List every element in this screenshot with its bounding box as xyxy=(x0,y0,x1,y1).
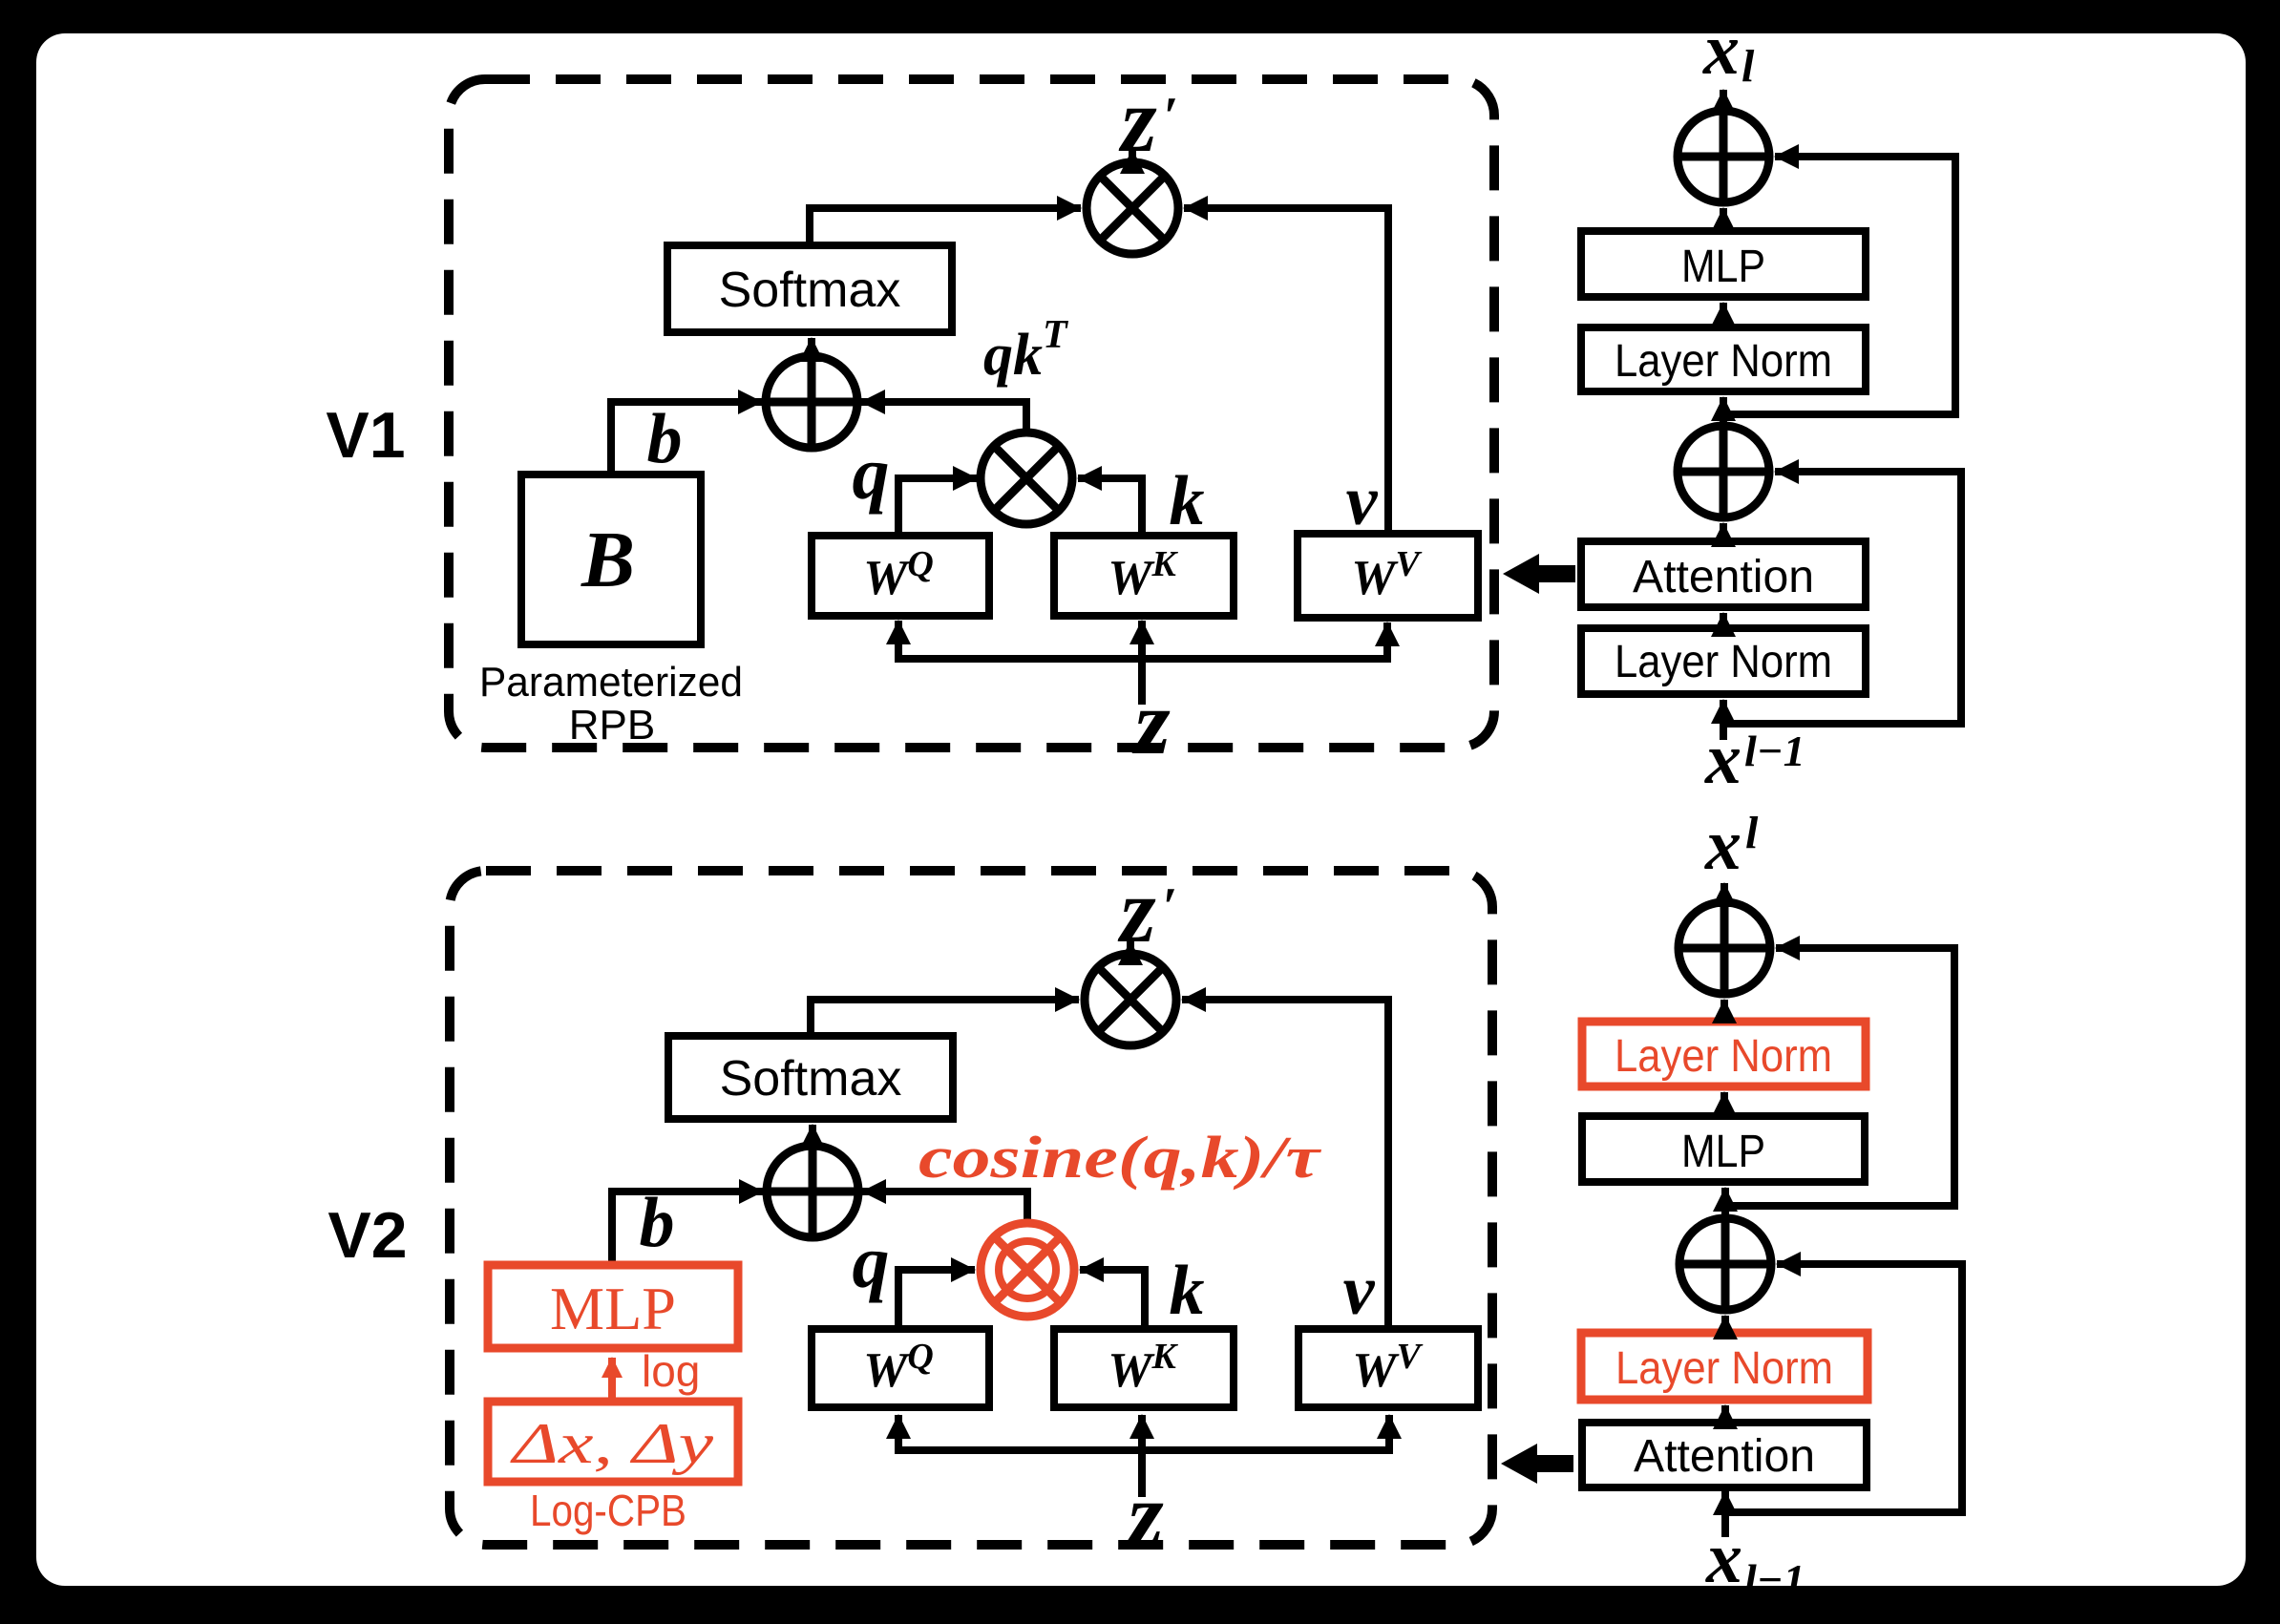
box WV xyxy=(1298,534,1478,618)
red multiply node (cosine) xyxy=(981,1223,1074,1317)
box Layer Norm (top stack upper) xyxy=(1581,327,1866,391)
add node V2 (b + cosine) xyxy=(767,1146,858,1237)
svg-text:v: v xyxy=(1343,1252,1376,1330)
svg-text:Layer Norm: Layer Norm xyxy=(1615,637,1832,687)
wire add2 up to MLP (V2 stack) xyxy=(1721,1188,1729,1218)
wire k from WK to red multiply xyxy=(1080,1270,1145,1329)
box Attention (V2 stack) xyxy=(1582,1423,1867,1487)
wire z branch to WV xyxy=(1383,622,1391,663)
multiply node V2 (softmax x v) xyxy=(1085,954,1176,1045)
box dx dy red xyxy=(488,1402,738,1482)
wire v riser from WV to multiply (V2) xyxy=(1182,1000,1388,1329)
wire add2 up to LayerNorm xyxy=(1720,397,1727,426)
svg-text:x: x xyxy=(1702,10,1740,90)
wire Softmax top to multiply (V2) xyxy=(811,1000,1079,1036)
svg-text:k: k xyxy=(1170,1252,1205,1330)
add node top (MLP residual) xyxy=(1678,111,1769,202)
V1 dashed container box xyxy=(449,79,1494,748)
node z-prime (V2 output) xyxy=(1117,859,1177,961)
svg-text:Parameterized: Parameterized xyxy=(479,659,743,706)
arrow add node to Softmax xyxy=(808,338,815,356)
Softmax box (V2) xyxy=(668,1036,953,1119)
box Layer Norm red (lower, V2 stack) xyxy=(1581,1333,1868,1400)
svg-text:log: log xyxy=(642,1346,700,1396)
wire v riser from WV to multiply node xyxy=(1184,208,1388,534)
wire q from WQ to red multiply xyxy=(898,1270,975,1329)
svg-text:RPB: RPB xyxy=(569,702,655,749)
svg-text:cosine(q,k)/τ: cosine(q,k)/τ xyxy=(918,1126,1322,1191)
label x_l-1 (subscript, V2 stack) xyxy=(1705,1518,1805,1604)
Softmax box (V1) xyxy=(667,245,952,332)
add node top (V2 stack) xyxy=(1678,902,1770,994)
wire k from WK to multiply xyxy=(1078,478,1142,536)
wire z branch to WV (V2) xyxy=(1385,1415,1393,1454)
svg-text:x: x xyxy=(1705,1518,1742,1598)
svg-text:Δx, Δy: Δx, Δy xyxy=(510,1412,713,1475)
arrow add to x^l (V2 stack) xyxy=(1721,883,1728,902)
wire z branch to WQ xyxy=(895,621,902,663)
box WK xyxy=(1054,536,1234,616)
label x_l output top xyxy=(1702,10,1755,92)
svg-text:MLP: MLP xyxy=(1681,242,1765,292)
svg-text:l−1: l−1 xyxy=(1744,1555,1805,1604)
svg-text:Layer Norm: Layer Norm xyxy=(1615,1343,1833,1394)
arrow add node to Softmax (V2) xyxy=(809,1125,816,1146)
arrow MLP to add1 xyxy=(1720,208,1727,231)
svg-text:l: l xyxy=(1745,808,1759,858)
svg-text:x: x xyxy=(1704,805,1742,885)
wire z up to WK (V2) xyxy=(1138,1415,1146,1497)
box MLP (top stack) xyxy=(1581,231,1866,297)
wire z up to WK xyxy=(1138,621,1146,705)
wire z branch to WQ (V2) xyxy=(895,1415,902,1454)
box MLP red (Log-CPB) xyxy=(488,1265,738,1348)
box Layer Norm red (upper, V2 stack) xyxy=(1582,1022,1866,1086)
box MLP (V2 stack) xyxy=(1582,1116,1865,1182)
wire z horizontal distribution xyxy=(898,655,1387,663)
box Layer Norm (top stack lower) xyxy=(1581,628,1866,694)
wire q from WQ to multiply xyxy=(898,478,977,536)
arrow add1 to x_l xyxy=(1720,90,1727,111)
svg-text:MLP: MLP xyxy=(1681,1127,1765,1177)
add node mid (V2 stack) xyxy=(1679,1218,1771,1310)
svg-text:Attention: Attention xyxy=(1634,1431,1815,1482)
arrow MLP to LayerNorm-red (V2 stack) xyxy=(1721,1092,1728,1116)
V2 dashed container box xyxy=(450,871,1492,1545)
svg-text:z: z xyxy=(1118,69,1156,171)
svg-text:Softmax: Softmax xyxy=(719,263,901,318)
wire z horizontal distribution (V2) xyxy=(898,1446,1389,1454)
arrow mult1 to z-prime xyxy=(1129,150,1136,166)
svg-text:k: k xyxy=(1170,462,1205,540)
thick arrow from Attention into V1 box xyxy=(1503,554,1575,594)
svg-text:l: l xyxy=(1742,41,1755,92)
svg-text:q: q xyxy=(853,432,890,515)
box WQ xyxy=(812,536,989,616)
wire Softmax top to multiply node xyxy=(810,208,1081,245)
add node mid (attention residual) xyxy=(1678,426,1769,517)
arrow LayerNorm-red to add (V2 stack) xyxy=(1721,1000,1728,1022)
arrow LayerNorm2 to Attention xyxy=(1720,613,1727,628)
wire B to add node (b) xyxy=(611,402,762,475)
wire MLP(red) to add node (b) V2 xyxy=(612,1192,763,1266)
svg-text:Layer Norm: Layer Norm xyxy=(1615,336,1832,387)
label x_l-1 (superscript) xyxy=(1704,719,1805,799)
svg-text:MLP: MLP xyxy=(550,1275,676,1342)
arrow LayerNorm-red2 to add2 (V2 stack) xyxy=(1721,1316,1729,1333)
skip wire around attention (V2 stack) xyxy=(1725,1264,1962,1512)
multiply node (softmax x v) xyxy=(1087,162,1178,254)
red arrow dxdy to MLP xyxy=(608,1358,616,1400)
svg-text:x: x xyxy=(1704,719,1742,799)
box B (parameterized bias) xyxy=(521,475,701,644)
svg-text:′: ′ xyxy=(1162,877,1177,937)
thick arrow from Attention into V2 box xyxy=(1501,1444,1573,1484)
svg-text:b: b xyxy=(647,400,683,478)
arrow Attention to LayerNorm-red2 (V2 stack) xyxy=(1721,1405,1729,1423)
skip wire around MLP (V2 stack) xyxy=(1724,948,1954,1206)
skip wire around attention block xyxy=(1723,472,1961,724)
svg-text:Softmax: Softmax xyxy=(720,1051,902,1107)
wire x_l-1 to LayerNorm2 xyxy=(1720,700,1727,740)
svg-text:z: z xyxy=(1117,859,1155,961)
box WQ (V2) xyxy=(812,1329,989,1407)
svg-text:Attention: Attention xyxy=(1633,552,1814,602)
skip wire around MLP xyxy=(1723,157,1955,414)
label x^l output (V2 stack) xyxy=(1704,805,1759,885)
svg-text:′: ′ xyxy=(1163,87,1178,146)
svg-text:V1: V1 xyxy=(326,399,405,472)
box WV (V2) xyxy=(1298,1329,1478,1407)
wire cosine mult to add node (V2) xyxy=(862,1192,1027,1226)
arrow LayerNorm to MLP xyxy=(1720,303,1727,327)
box WK (V2) xyxy=(1054,1329,1234,1407)
add node (b + qkT) xyxy=(766,356,857,448)
svg-text:V2: V2 xyxy=(327,1199,407,1272)
node z-prime (V1 output) xyxy=(1118,69,1178,171)
wire x_l-1 to Attention (V2 stack) xyxy=(1721,1491,1729,1537)
svg-text:b: b xyxy=(640,1184,675,1262)
svg-text:Log-CPB: Log-CPB xyxy=(530,1486,686,1535)
multiply node (q x k) xyxy=(981,432,1072,524)
arrow mult to z-prime (V2) xyxy=(1127,941,1134,958)
svg-text:q: q xyxy=(853,1220,890,1303)
svg-text:l−1: l−1 xyxy=(1744,727,1805,775)
svg-text:z: z xyxy=(1131,671,1170,773)
svg-text:B: B xyxy=(581,516,635,604)
svg-text:Layer Norm: Layer Norm xyxy=(1615,1031,1832,1082)
svg-text:v: v xyxy=(1346,462,1379,540)
arrow Attention to add2 xyxy=(1720,523,1727,541)
box Attention (top stack) xyxy=(1581,541,1866,607)
wire qkT mult to add node xyxy=(861,402,1026,433)
